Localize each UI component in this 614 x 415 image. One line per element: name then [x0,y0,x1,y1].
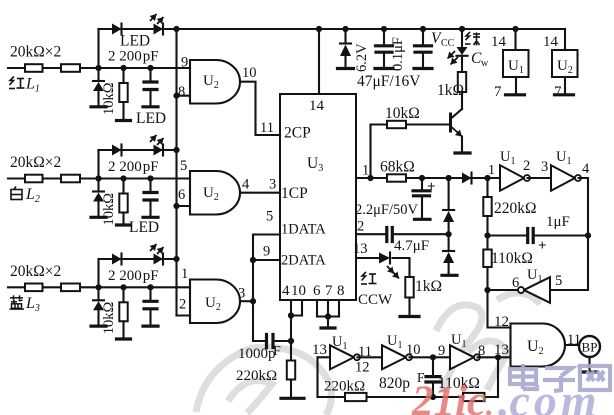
wire to NAND pin13 [478,356,511,358]
svg-text:6: 6 [178,187,185,203]
svg-text:2: 2 [357,219,364,235]
ground [117,223,131,226]
feedback right vert [497,357,499,397]
svg-text:9: 9 [438,343,445,359]
resistor 10k base [387,121,406,128]
capacitor 1000pF [253,301,266,341]
wire riser ch3 [97,259,99,287]
svg-text:1kΩ: 1kΩ [437,82,464,99]
svg-text:10: 10 [242,65,257,81]
diode stack upper [448,178,450,210]
svg-text:3: 3 [238,286,245,302]
svg-text:10kΩ: 10kΩ [385,105,420,122]
svg-text:.com: .com [498,375,601,415]
wire channel1 input [8,67,190,69]
wire led branch ch2 [99,149,177,151]
wire inv1 to inv2 [528,177,552,179]
svg-text:LED: LED [136,110,166,127]
svg-text:2CP: 2CP [284,125,311,142]
ground [143,105,158,108]
svg-text:9: 9 [181,55,188,71]
bottom feedback wire [318,396,499,398]
wire pin2 4.7uF [356,233,386,235]
diode ch1 clamp [97,68,99,81]
LED ch3 [154,254,164,265]
resistor 20k a ch2 [25,175,43,183]
resistor 110k osc [463,393,485,401]
svg-text:7: 7 [494,84,502,100]
svg-text:68kΩ: 68kΩ [380,159,415,176]
svg-text:47μF/16V: 47μF/16V [357,73,421,90]
wire osc input [318,356,331,358]
svg-text:10kΩ: 10kΩ [101,193,117,226]
ground [583,370,597,373]
svg-text:12: 12 [355,360,370,376]
svg-text:220kΩ: 220kΩ [494,200,537,217]
svg-text:20kΩ×2: 20kΩ×2 [10,154,61,171]
wire U1 supply [514,29,516,50]
svg-text:1μF: 1μF [546,214,570,230]
node label L3 [10,295,25,309]
svg-text:5: 5 [180,158,187,174]
svg-text:2 200pF: 2 200pF [108,268,159,284]
svg-text:4.7μF: 4.7μF [394,238,429,254]
NAND gate U2d [511,324,565,367]
capacitor 0.1uF [422,29,424,45]
svg-text:+: + [427,179,436,195]
svg-text:F: F [273,344,281,359]
node junction [95,175,101,181]
svg-text:2 200pF: 2 200pF [108,49,159,65]
wire U2a out to U3 pin11 [240,82,280,135]
wire NAND out [565,344,579,346]
svg-text:6.2V: 6.2V [354,43,370,72]
wire pin1 row [356,177,500,179]
wire to inv3 [410,356,451,358]
wire led branch ch3 [99,258,177,260]
resistor 20k a ch3 [25,284,43,292]
buzzer BP [579,336,600,357]
svg-text:CC: CC [441,38,455,49]
ground [506,93,525,96]
svg-text:CCW: CCW [358,292,393,308]
svg-text:1000p: 1000p [238,346,276,362]
svg-text:5: 5 [555,273,562,289]
svg-text:110kΩ: 110kΩ [491,250,533,267]
capacitor 820pF [432,357,434,375]
resistor 1k CCW [405,277,413,298]
resistor 20k b ch1 [61,64,80,72]
inverter U1a [500,165,524,191]
svg-text:0.1μF: 0.1μF [390,37,406,71]
NAND gate U2b [190,171,240,215]
wire reset node [290,316,292,342]
U3 bottom pins 4,10 [291,300,302,316]
wire pin13 CCW LED [356,257,379,259]
resistor 10k ch2 [122,179,124,194]
diode ch1 series [112,24,122,35]
svg-text:4: 4 [282,283,290,299]
ground [91,325,106,328]
U3 bottom pins 6,7,8 [317,300,339,317]
inverter U1c left [524,277,550,303]
svg-text:13: 13 [312,342,327,358]
svg-text:10kΩ: 10kΩ [101,82,117,115]
NAND gate U2a [190,60,240,104]
wire vertical input bus [175,29,177,316]
svg-text:20kΩ×2: 20kΩ×2 [10,44,61,61]
inverter U1e [382,345,406,369]
svg-text:10kΩ: 10kΩ [101,302,117,335]
resistor 1k green [461,56,463,72]
svg-text:3: 3 [269,177,276,193]
wire U3 pin14 to rail [318,29,320,94]
svg-text:21ic.: 21ic. [411,378,494,415]
wire base 10k [371,125,450,179]
ground [281,397,304,400]
wire led branch ch1 [99,28,177,30]
transistor Q1 [461,92,463,109]
wire riser ch1 [97,29,99,68]
svg-text:7: 7 [554,84,562,100]
svg-text:10: 10 [406,342,421,358]
svg-text:LED: LED [120,33,150,50]
svg-text:820p: 820p [379,375,410,392]
svg-text:5: 5 [266,209,273,225]
svg-text:4: 4 [242,177,250,193]
LED ch1 [154,24,164,35]
svg-text:BP: BP [582,340,598,355]
ground [327,317,329,328]
svg-text:6: 6 [512,275,519,291]
wire U2 supply [564,29,566,50]
svg-text:+: + [538,238,547,254]
svg-text:1: 1 [488,163,495,178]
LED green Cw [461,29,463,47]
wire U2b out to U3 pin3 [240,192,280,194]
box U2 [552,50,578,77]
ground [555,93,574,96]
inverter U1f [450,345,474,369]
diode pin1 row [462,173,472,184]
svg-text:1CP: 1CP [281,185,308,202]
svg-text:4: 4 [582,161,590,177]
ground [117,337,131,340]
ground [143,216,158,219]
svg-text:6: 6 [313,283,321,299]
svg-text:14: 14 [543,34,559,50]
svg-text:14: 14 [309,98,325,114]
svg-text:LED: LED [129,219,159,236]
label red [361,272,377,284]
svg-text:8: 8 [178,84,185,100]
ground [91,216,106,219]
svg-text:13: 13 [353,241,368,257]
NAND gate U2c [190,280,240,324]
svg-text:1: 1 [181,266,188,282]
diode stack lower [443,250,454,252]
svg-text:2 200pF: 2 200pF [108,159,159,175]
ground [455,151,470,154]
capacitor 2200pF ch3 [149,287,151,300]
ground [143,325,158,328]
wire down to NAND pin12 [488,290,511,328]
capacitor 2.2uF [421,178,423,190]
diode ch3 clamp [97,287,99,300]
svg-text:2DATA: 2DATA [281,253,326,269]
svg-text:3: 3 [541,159,548,175]
inverter U1d [330,345,354,369]
resistor 220k fb [486,178,488,197]
node label L1 [9,77,25,89]
svg-text:w: w [481,58,489,69]
svg-text:12: 12 [494,314,509,330]
LED ch2 [154,145,164,156]
resistor 110k [486,236,488,250]
diode ch2 clamp [97,179,99,192]
watermark dianziwang [510,364,610,391]
resistor 20k a ch1 [25,64,43,72]
ground [91,105,106,108]
svg-text:8: 8 [337,283,345,299]
diode ch2 series [112,145,122,156]
capacitor 2200pF ch1 [149,68,151,81]
LED red CCW [379,253,390,264]
resistor 220k reset [290,341,292,361]
inverter U1b [551,165,575,191]
zener 6.2V [344,29,346,43]
svg-text:1DATA: 1DATA [281,222,326,238]
resistor 10k ch1 [122,68,124,83]
svg-text:2: 2 [179,297,186,313]
diode ch3 series [112,254,122,265]
svg-text:9: 9 [263,244,270,260]
capacitor 2200pF ch2 [149,179,151,192]
wire gate input stubs [177,95,191,97]
capacitor 1uF [488,234,528,236]
svg-text:11: 11 [260,120,274,136]
svg-text:20kΩ×2: 20kΩ×2 [10,263,61,280]
resistor 68k [387,174,406,181]
wire channel3 input [8,286,190,288]
ground [117,119,131,122]
box U1 [503,50,529,77]
svg-text:2.2μF/50V: 2.2μF/50V [355,202,418,218]
wire top rail [177,28,566,30]
node junction [95,284,101,290]
svg-text:2: 2 [523,158,530,174]
node junction [95,65,101,71]
svg-text:14: 14 [491,34,507,50]
wire to 1DATA 2DATA [253,235,280,302]
decorative gray stamp [196,293,540,415]
capacitor 47uF [383,29,385,45]
resistor 20k b ch3 [61,284,80,292]
wire inv to inv [358,356,383,358]
resistor 220k osc [345,393,367,401]
wire channel2 input [8,177,190,179]
wire U2c out [240,300,253,302]
wire inv out [488,289,522,291]
IC U3 box [280,94,356,300]
feedback left vert [316,357,318,397]
wire riser ch2 [97,150,99,179]
svg-text:7: 7 [325,283,333,299]
label green [465,32,480,46]
node label L2 [11,187,22,200]
ground [442,274,457,277]
resistor 20k b ch2 [61,175,80,183]
svg-text:220kΩ: 220kΩ [324,379,365,395]
ground [400,315,419,318]
svg-text:1kΩ: 1kΩ [415,278,442,295]
svg-text:10: 10 [291,283,306,299]
wire inv2 out down [550,178,588,290]
resistor 10k ch3 [122,287,124,302]
svg-text:220kΩ: 220kΩ [236,368,277,384]
